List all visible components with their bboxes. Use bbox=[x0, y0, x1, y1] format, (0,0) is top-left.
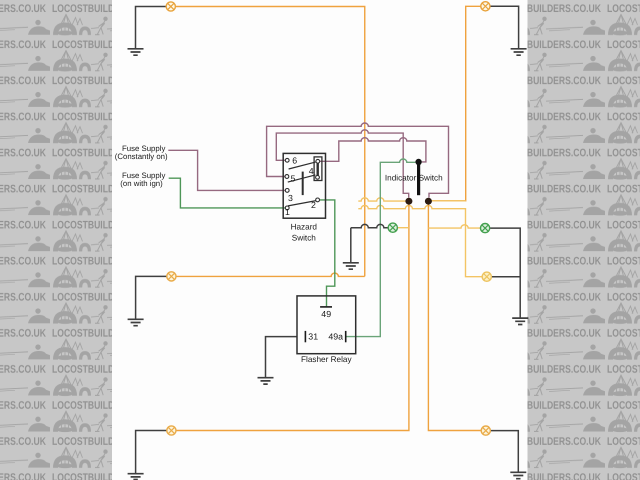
svg-text:3: 3 bbox=[288, 193, 293, 203]
wire: orange right dot down to bottom-right lamp bbox=[428, 201, 481, 431]
hazard switch pin 3 bbox=[285, 189, 289, 193]
hazard switch pin 5 bbox=[285, 175, 289, 179]
terminal 49 bbox=[320, 306, 332, 308]
ground bottom-right bbox=[510, 472, 526, 478]
ground left lamp (dash) bbox=[343, 263, 359, 269]
terminal 49a bbox=[345, 331, 347, 342]
lamp green right indicator repeater bbox=[481, 224, 490, 233]
wire: orange from top-right lamp down to right junction dot bbox=[432, 6, 481, 201]
hazard switch pin 2 bbox=[316, 198, 320, 202]
indicator switch pivot dot bbox=[415, 159, 421, 165]
svg-text:49a: 49a bbox=[328, 331, 343, 341]
wire: green pin2 down to flasher 49 bbox=[320, 200, 335, 306]
svg-text:(on with ign): (on with ign) bbox=[120, 179, 163, 188]
lamp green left indicator repeater bbox=[388, 223, 397, 232]
wire: purple pin5 up and across to right dot bbox=[267, 123, 449, 198]
svg-text:Flasher Relay: Flasher Relay bbox=[301, 355, 352, 364]
svg-text:6: 6 bbox=[292, 156, 297, 166]
lamp pale orange right bbox=[482, 272, 491, 281]
ground top-right bbox=[511, 49, 527, 55]
wire: black mid-left lamp to ground bbox=[136, 276, 167, 318]
wire: purple fuse supply constant to pin 3 bbox=[168, 150, 285, 190]
wire: black flasher 31 to ground bbox=[266, 337, 297, 378]
junction dot right bbox=[425, 198, 432, 205]
indicator switch lever bbox=[417, 162, 420, 195]
svg-text:49: 49 bbox=[321, 309, 331, 319]
hazard switch slider pin4 bbox=[314, 157, 322, 181]
wire: black bottom-left lamp to ground bbox=[136, 431, 167, 474]
wire: orange branch to right green lamp with hop bbox=[428, 225, 480, 228]
right watermark strip bbox=[528, 0, 640, 480]
wire: orange row to mid-left lamp with hop over green bbox=[176, 273, 365, 276]
svg-text:2: 2 bbox=[311, 200, 316, 210]
ground mid-left bbox=[128, 319, 144, 325]
ground flasher 31 bbox=[258, 378, 274, 384]
junction dot left bbox=[405, 198, 412, 205]
svg-text:(Constantly on): (Constantly on) bbox=[115, 152, 168, 161]
svg-text:1: 1 bbox=[285, 207, 290, 217]
svg-text:5: 5 bbox=[291, 173, 296, 183]
wire: orange branch to left green lamp bbox=[397, 227, 409, 229]
ground right column bbox=[512, 318, 528, 324]
ground bottom-left bbox=[128, 474, 144, 480]
wire: orange row B across to right column bbox=[358, 205, 482, 276]
wire: orange segment right dot to top-right leg bbox=[428, 200, 465, 202]
lamp top-left bbox=[166, 2, 175, 11]
wire: purple slider pin4 across to indicator pivot bbox=[320, 138, 426, 162]
wire: purple pin6 up and across to left dot bbox=[276, 130, 408, 198]
wire: orange left dot down to bottom-left lamp bbox=[176, 201, 409, 431]
hazard switch box bbox=[283, 153, 325, 218]
lamp bottom-left bbox=[167, 426, 176, 435]
wire: orange row A to left junction dot bbox=[358, 198, 409, 201]
wire: green flasher 49a up to indicator pivot bbox=[346, 159, 416, 337]
wire: black left green lamp to ground with hops bbox=[351, 224, 388, 262]
terminal 31 bbox=[304, 331, 306, 342]
hazard switch pin 1 bbox=[285, 206, 289, 210]
svg-text:Switch: Switch bbox=[292, 233, 317, 242]
wire: green fuse supply ign to pin 1 bbox=[169, 178, 285, 208]
svg-text:4: 4 bbox=[309, 166, 314, 176]
lamp top-right bbox=[481, 2, 490, 11]
wire: black top-left lamp to ground bbox=[136, 7, 167, 49]
wire: black top-right lamp to ground bbox=[490, 6, 519, 48]
wire: orange feed from top-left lamp down left column bbox=[175, 7, 364, 277]
svg-text:31: 31 bbox=[308, 331, 318, 341]
lamp bottom-right bbox=[481, 426, 490, 435]
lamp mid-left bbox=[167, 272, 176, 281]
hazard switch pin 6 bbox=[285, 158, 289, 162]
svg-text:Hazard: Hazard bbox=[291, 222, 318, 231]
flasher relay box bbox=[297, 296, 356, 354]
svg-text:Indicator Switch: Indicator Switch bbox=[385, 174, 443, 183]
hazard switch contact diagonals bbox=[289, 162, 316, 169]
wire: black bottom-right mid lamp join bbox=[491, 276, 520, 278]
left watermark strip bbox=[0, 0, 112, 480]
ground top-left bbox=[128, 49, 144, 55]
wire: black right green lamp down to ground bbox=[490, 228, 521, 318]
wire: black bottom-right lamp to ground bbox=[490, 431, 518, 472]
